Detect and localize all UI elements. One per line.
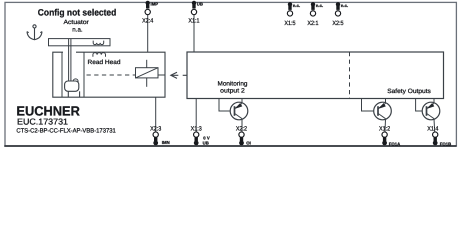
svg-text:EUC.173731: EUC.173731 bbox=[17, 117, 68, 127]
connector X2:1 (n.c.) bbox=[307, 2, 323, 27]
read head slot wall right bbox=[83, 52, 85, 97]
connector X2:2 (OI) bbox=[236, 126, 251, 146]
drawing frame bbox=[5, 2, 456, 146]
wire base Q2 bbox=[362, 99, 379, 112]
wire X2:3 to read head bbox=[155, 97, 157, 131]
read head slot wall left bbox=[61, 52, 63, 97]
connector X2:3 (IMN) bbox=[150, 126, 170, 146]
wire X2:2 collector lead bbox=[241, 119, 243, 132]
connector X1:4 (FO1B) bbox=[427, 126, 451, 147]
connector X1:2 (FO1A) bbox=[379, 126, 400, 147]
svg-text:Monitoring: Monitoring bbox=[218, 80, 249, 87]
bolt pedestal walls bbox=[67, 91, 69, 97]
svg-text:UB: UB bbox=[203, 141, 209, 146]
actuator tongue bbox=[68, 39, 70, 81]
wire X1:3 to main box bbox=[195, 99, 197, 132]
svg-text:Read Head: Read Head bbox=[88, 59, 122, 66]
svg-text:X2:4: X2:4 bbox=[142, 18, 154, 25]
svg-text:Actuator: Actuator bbox=[64, 19, 89, 26]
svg-text:X2:5: X2:5 bbox=[332, 20, 344, 27]
svg-text:X1:2: X1:2 bbox=[379, 126, 391, 133]
RFID transponder bbox=[136, 60, 166, 87]
connector X2:4 (IMP) bbox=[142, 1, 158, 25]
connector X2:5 (n.c.) bbox=[332, 2, 348, 27]
wire X1:2 collector lead bbox=[384, 119, 387, 132]
svg-text:CTS-C2-BP-CC-FLX-AP-VBB-173731: CTS-C2-BP-CC-FLX-AP-VBB-173731 bbox=[16, 127, 116, 134]
connector X1:5 (n.c.) bbox=[284, 2, 300, 27]
RFID arrow bbox=[171, 72, 177, 78]
transistor Q1 (monitoring output) bbox=[230, 99, 248, 120]
read head coil bbox=[93, 53, 106, 57]
svg-text:X2:2: X2:2 bbox=[236, 126, 248, 133]
svg-text:X2:3: X2:3 bbox=[150, 126, 162, 133]
wire X1:1 to main box bbox=[193, 15, 195, 52]
dashed RFID link bbox=[87, 74, 136, 76]
svg-text:n.a.: n.a. bbox=[72, 26, 83, 33]
svg-text:IMP: IMP bbox=[151, 2, 159, 7]
transistor Q3 (safety output B) bbox=[422, 99, 440, 120]
svg-text:X1:4: X1:4 bbox=[427, 126, 439, 133]
svg-text:X1:5: X1:5 bbox=[284, 20, 296, 27]
connector X1:3 (0 V) bbox=[191, 126, 210, 146]
read head housing bbox=[53, 52, 165, 97]
svg-text:X2:1: X2:1 bbox=[307, 20, 319, 27]
wire base Q3 bbox=[416, 99, 427, 112]
svg-text:X1:1: X1:1 bbox=[188, 18, 200, 25]
channel divider (dashed) bbox=[349, 52, 351, 99]
svg-text:IMN: IMN bbox=[162, 140, 170, 145]
svg-text:n.c.: n.c. bbox=[316, 3, 323, 8]
svg-text:n.c.: n.c. bbox=[341, 3, 348, 8]
connector X1:1 (UB) bbox=[188, 1, 203, 25]
svg-text:FO1B: FO1B bbox=[440, 142, 451, 147]
svg-text:Safety Outputs: Safety Outputs bbox=[387, 88, 431, 95]
main device box bbox=[187, 52, 444, 99]
wire X2:4 to read head bbox=[147, 15, 149, 53]
wire X1:4 collector lead bbox=[433, 119, 436, 132]
svg-text:OI: OI bbox=[246, 140, 251, 145]
anchor symbol bbox=[27, 25, 42, 40]
svg-text:n.c.: n.c. bbox=[293, 3, 300, 8]
svg-text:output 2: output 2 bbox=[220, 88, 245, 95]
transistor Q2 (safety output A) bbox=[374, 99, 392, 120]
svg-text:X1:3: X1:3 bbox=[191, 126, 203, 133]
tongue roller bbox=[73, 79, 78, 84]
tongue bolt bbox=[65, 81, 79, 91]
actuator box bbox=[49, 39, 111, 46]
wire base Q1 bbox=[219, 99, 235, 112]
svg-text:UB: UB bbox=[197, 2, 203, 7]
svg-text:FO1A: FO1A bbox=[389, 142, 400, 147]
actuator coil bbox=[93, 41, 104, 45]
svg-text:Config not selected: Config not selected bbox=[38, 7, 117, 17]
